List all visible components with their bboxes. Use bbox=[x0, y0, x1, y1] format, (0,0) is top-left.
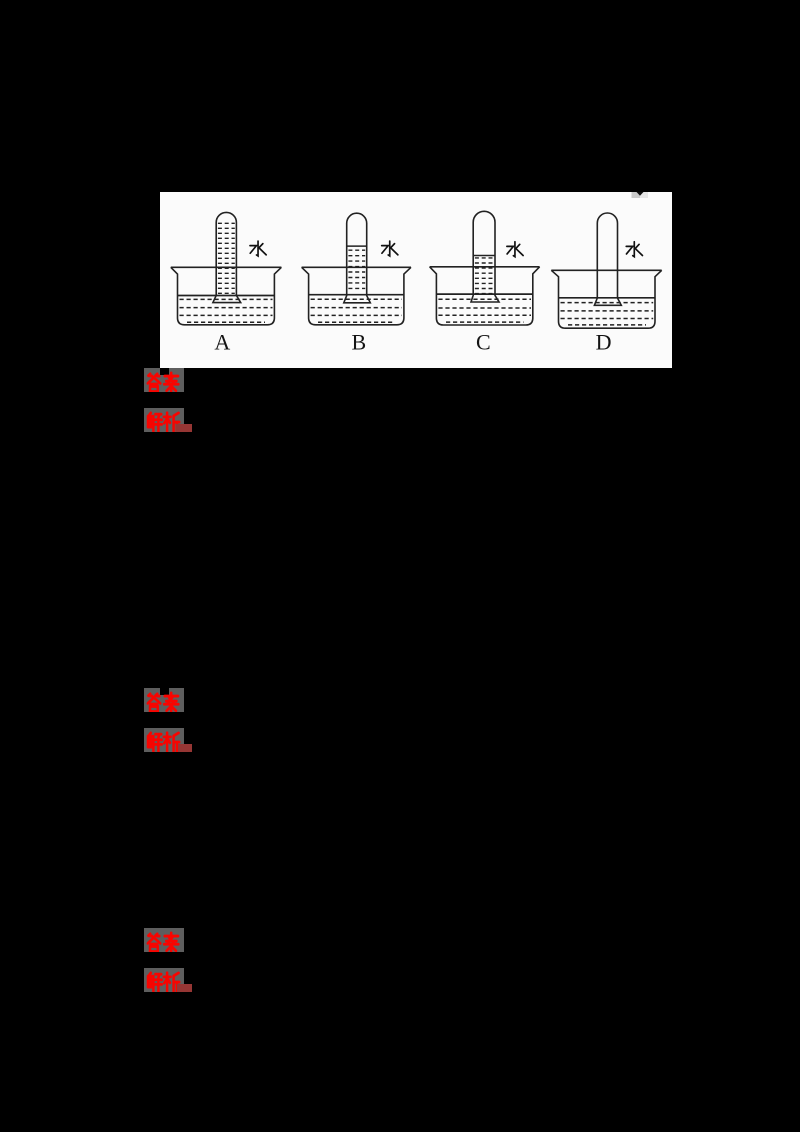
tube C water dashes bbox=[475, 258, 493, 294]
beaker C rim bbox=[430, 266, 540, 268]
tube C inner water line bbox=[473, 255, 495, 257]
beaker C water dashes bbox=[438, 299, 531, 322]
beaker C body bbox=[430, 267, 540, 325]
white diagram panel bbox=[160, 192, 672, 368]
gray tab top right bbox=[632, 192, 649, 198]
answer label 1 bbox=[144, 368, 184, 392]
水 label C bbox=[507, 242, 523, 257]
svg-text:B: B bbox=[351, 330, 366, 355]
beaker D body bbox=[551, 270, 661, 328]
水 label D bbox=[626, 242, 642, 257]
beaker D water line bbox=[559, 297, 656, 299]
beaker A water line bbox=[178, 295, 275, 297]
svg-text:C: C bbox=[476, 330, 491, 355]
beaker A body bbox=[171, 267, 282, 325]
test tube C bbox=[471, 211, 499, 302]
beaker D rim bbox=[551, 269, 661, 271]
beaker D water dashes bbox=[561, 303, 654, 325]
beaker A rim bbox=[171, 266, 282, 268]
tube B inner water line bbox=[347, 245, 367, 247]
test tube A bbox=[213, 212, 241, 302]
svg-text:D: D bbox=[596, 330, 612, 355]
beaker A water dashes bbox=[180, 299, 273, 322]
test tube D (empty) bbox=[594, 213, 621, 305]
dark red underline 2 bbox=[178, 744, 192, 752]
beaker B water line bbox=[309, 294, 404, 296]
analysis label 3 bbox=[144, 968, 184, 992]
tube B water dashes bbox=[348, 250, 365, 288]
beaker B body bbox=[302, 267, 411, 325]
test tube B bbox=[344, 213, 371, 303]
dark red underline 3 bbox=[177, 984, 193, 992]
analysis label 1 bbox=[144, 408, 184, 432]
answer label 3 bbox=[144, 928, 184, 952]
tube A water dashes (full) bbox=[218, 223, 235, 293]
beaker B rim bbox=[302, 266, 411, 268]
option letters bbox=[214, 330, 611, 355]
水 label B bbox=[382, 241, 398, 256]
beaker B water dashes bbox=[311, 299, 402, 322]
svg-text:A: A bbox=[214, 330, 230, 355]
水 label A bbox=[250, 241, 266, 256]
analysis label 2 bbox=[144, 728, 184, 752]
answer label 2 bbox=[144, 688, 184, 712]
beaker C water line bbox=[436, 293, 532, 295]
dark red underline 1 bbox=[176, 424, 192, 432]
